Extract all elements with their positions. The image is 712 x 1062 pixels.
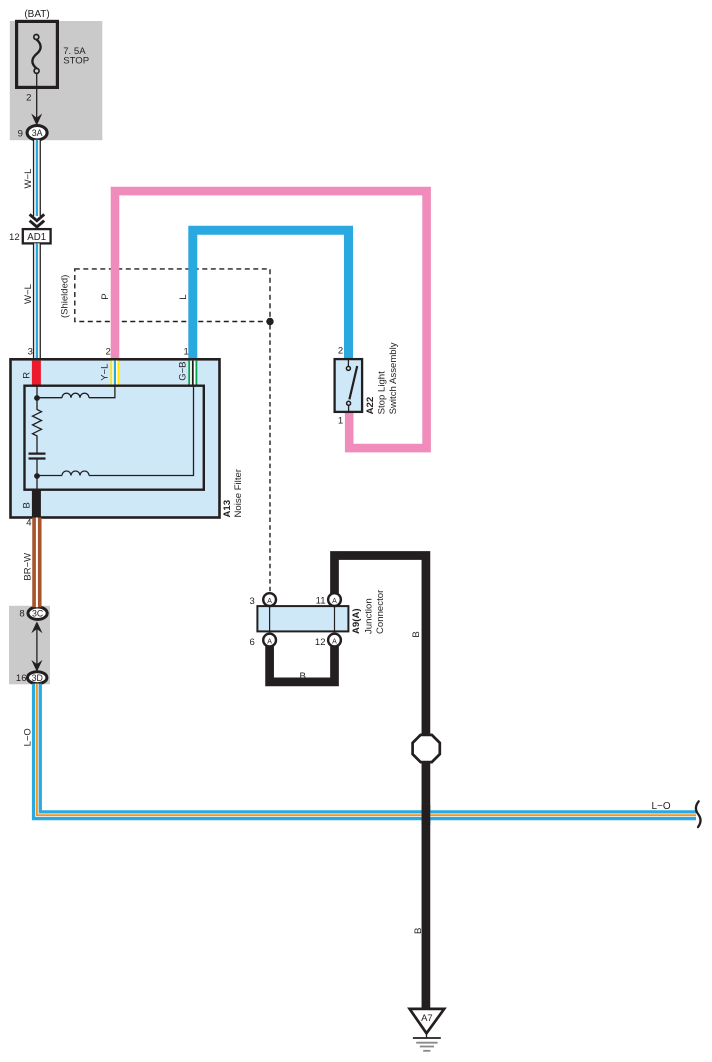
svg-text:12: 12 xyxy=(315,637,326,648)
wire B loop junction pin 6 to pin 12 xyxy=(270,645,335,682)
node B junction dot xyxy=(34,473,40,479)
svg-text:3C: 3C xyxy=(32,609,44,619)
wire W-L lower xyxy=(33,243,41,360)
svg-text:L−O: L−O xyxy=(652,801,671,812)
pin 11 terminal A xyxy=(328,593,341,606)
switch lever xyxy=(349,366,357,399)
capacitor C xyxy=(29,454,46,459)
connector oval 3C xyxy=(28,607,47,619)
inductor L1 xyxy=(62,393,89,397)
redraw wire B over L-O crossing xyxy=(422,805,431,825)
fuse block shading (gray box) xyxy=(10,21,103,140)
wire W-L upper (white w/ blue stripe) xyxy=(33,140,41,216)
svg-text:P: P xyxy=(100,293,111,299)
wire break symbol at right edge xyxy=(696,801,701,827)
wire L (blue) filter pin1 to switch pin2 xyxy=(193,230,349,359)
svg-text:BR−W: BR−W xyxy=(23,553,34,581)
svg-text:Switch Assembly: Switch Assembly xyxy=(388,342,399,414)
wire L-O from 3D down and right across page xyxy=(37,684,696,816)
internal joint lines xyxy=(269,606,271,631)
svg-text:A22: A22 xyxy=(365,397,376,415)
connector oval 3D xyxy=(28,672,47,684)
ground stem xyxy=(426,1032,428,1038)
svg-text:(Shielded): (Shielded) xyxy=(59,275,70,318)
pin 12 terminal A xyxy=(328,634,341,647)
svg-text:A7: A7 xyxy=(421,1013,433,1024)
svg-text:Noise Filter: Noise Filter xyxy=(233,468,244,517)
wire B main: junction pin 11 up, right, down to ground xyxy=(335,556,426,1009)
svg-text:6: 6 xyxy=(250,637,255,648)
connector AD1 xyxy=(23,229,51,243)
pin 3 terminal A xyxy=(263,593,276,606)
svg-text:B: B xyxy=(413,928,424,934)
internal wire left vertical xyxy=(36,386,38,407)
pigtail Y-L pin 2 xyxy=(110,361,119,386)
pigtail G-B pin 1 xyxy=(188,361,197,386)
svg-text:3A: 3A xyxy=(32,128,43,138)
shield drain dashed wire xyxy=(269,325,271,592)
pigtail B (black) pin 4 xyxy=(32,490,41,518)
svg-text:A: A xyxy=(332,638,337,645)
pigtail R (red) pin 3 xyxy=(32,361,41,386)
svg-text:AD1: AD1 xyxy=(27,232,46,243)
ground A7 triangle xyxy=(410,1009,445,1033)
svg-text:STOP: STOP xyxy=(63,56,89,67)
svg-text:1: 1 xyxy=(338,416,343,427)
wire node B to inductor L2 xyxy=(37,475,62,477)
svg-text:W−L: W−L xyxy=(23,283,34,304)
svg-text:4: 4 xyxy=(26,517,31,528)
svg-text:R: R xyxy=(22,372,33,379)
stop light switch A22 box xyxy=(335,359,363,412)
switch pin 2 stem and contact xyxy=(347,359,349,366)
svg-text:3: 3 xyxy=(250,596,255,607)
internal wire pin2 branch xyxy=(89,386,115,398)
svg-text:3: 3 xyxy=(28,347,33,358)
svg-text:(BAT): (BAT) xyxy=(24,9,49,20)
svg-text:L: L xyxy=(178,294,189,300)
svg-text:A: A xyxy=(267,598,272,605)
svg-text:Stop Light: Stop Light xyxy=(377,371,388,415)
svg-text:Junction: Junction xyxy=(364,598,375,634)
svg-text:12: 12 xyxy=(9,232,20,243)
wire BR-W filter pin4 to 3C xyxy=(32,518,41,608)
svg-text:B: B xyxy=(22,502,33,508)
svg-text:A: A xyxy=(267,638,272,645)
wire L1 to node A xyxy=(37,397,62,399)
svg-text:16: 16 xyxy=(16,673,27,684)
svg-text:B: B xyxy=(299,671,305,682)
svg-text:8: 8 xyxy=(19,609,24,620)
svg-text:3D: 3D xyxy=(32,673,43,683)
fuse F 7.5A STOP xyxy=(17,21,58,87)
splice chevrons xyxy=(30,214,45,227)
switch pin 1 contact and stem xyxy=(347,401,351,405)
svg-text:2: 2 xyxy=(338,346,343,357)
svg-text:W−L: W−L xyxy=(23,168,34,189)
svg-text:9: 9 xyxy=(18,128,23,139)
svg-text:2: 2 xyxy=(106,347,111,358)
arrowhead into 3A xyxy=(31,114,42,126)
double arrow between 3C and 3D xyxy=(36,629,38,665)
svg-text:A: A xyxy=(332,598,337,605)
wire L2 to pin1 vertical xyxy=(89,386,194,476)
connector 3C/3D shading (gray box) xyxy=(9,606,50,685)
svg-text:B: B xyxy=(411,631,422,637)
svg-text:Y−L: Y−L xyxy=(100,364,111,381)
wire P (pink) filter pin2 to switch pin1 xyxy=(115,191,427,448)
svg-text:11: 11 xyxy=(316,596,326,607)
svg-text:2: 2 xyxy=(26,92,31,103)
pin 6 terminal A xyxy=(263,634,276,647)
svg-text:A9(A): A9(A) xyxy=(351,608,362,634)
svg-text:G−B: G−B xyxy=(178,362,189,381)
connector oval 3A xyxy=(27,126,47,140)
shielded cable dashed box xyxy=(75,269,270,322)
ground bars xyxy=(413,1037,441,1039)
svg-text:A13: A13 xyxy=(222,500,233,518)
splice octagon xyxy=(413,735,440,762)
noise filter A13 outer box xyxy=(11,359,220,517)
svg-text:1: 1 xyxy=(184,347,189,358)
shield drain junction dot xyxy=(266,318,273,325)
node A junction dot xyxy=(34,395,40,401)
svg-text:Connector: Connector xyxy=(375,589,386,634)
junction connector A9(A) body xyxy=(257,606,348,631)
inductor L2 xyxy=(62,471,89,476)
svg-text:L−O: L−O xyxy=(23,728,34,746)
resistor R xyxy=(33,406,42,439)
noise filter inner box xyxy=(25,386,204,490)
wire fuse to 3A xyxy=(36,73,38,120)
